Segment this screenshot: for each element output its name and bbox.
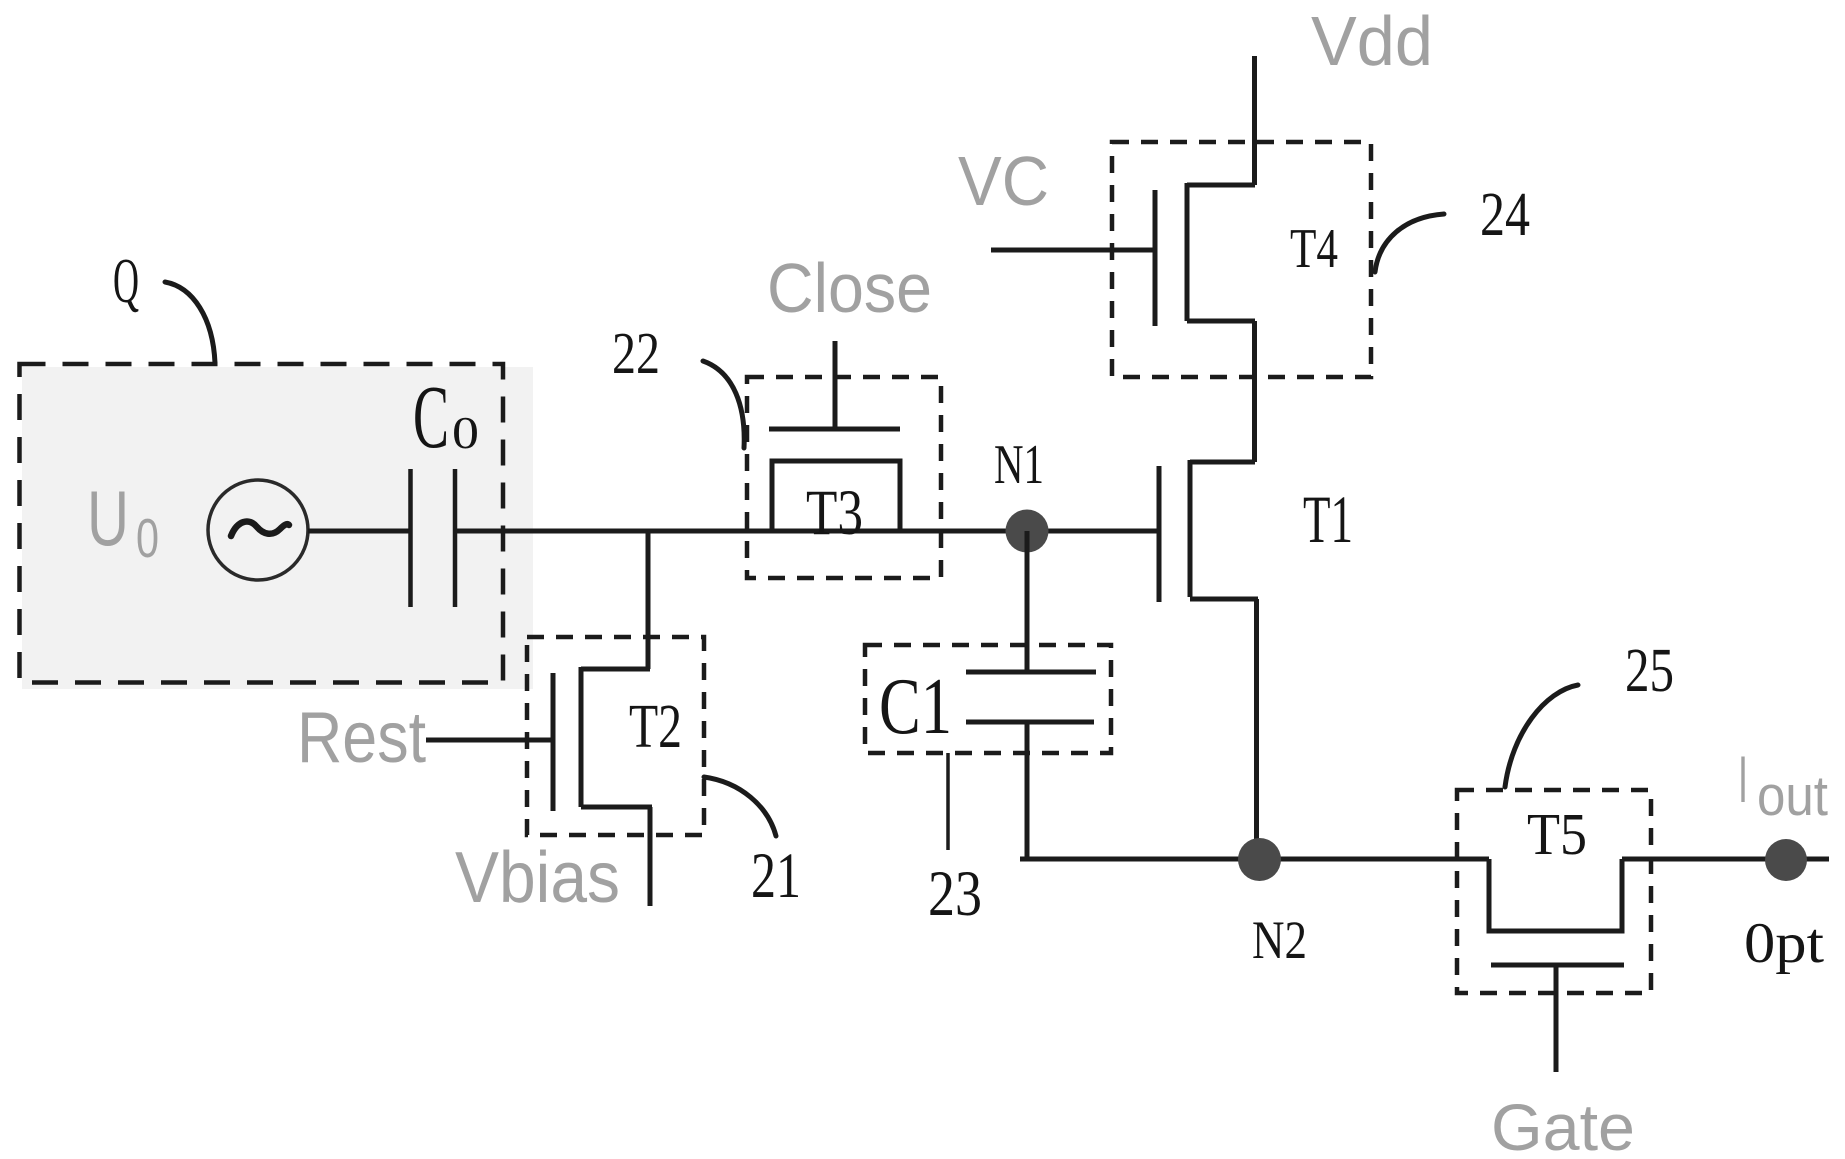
svg-text:U: U	[87, 474, 129, 562]
transistor T1 drain bar	[1190, 460, 1255, 465]
transistor T5 gate wire to Gate	[1554, 967, 1559, 1072]
svg-text:0pt: 0pt	[1744, 912, 1824, 975]
svg-text:N2: N2	[1252, 910, 1307, 970]
transistor T2 channel	[579, 667, 584, 807]
capacitor C1 bottom plate	[966, 720, 1094, 725]
wire source to C0	[308, 529, 410, 534]
svg-text:22: 22	[612, 320, 660, 386]
wire T2 source to Vbias	[648, 807, 653, 906]
transistor T2 drain bar	[581, 667, 650, 672]
transistor T4 channel	[1185, 183, 1190, 321]
svg-text:23: 23	[928, 858, 982, 930]
transistor T4 source bar	[1187, 319, 1255, 324]
node N2	[1238, 838, 1281, 881]
svg-text:T5: T5	[1527, 801, 1587, 867]
transistor T4 drain bar	[1187, 183, 1255, 188]
wire junction down to T2	[646, 531, 651, 669]
svg-text:Vdd: Vdd	[1311, 2, 1433, 80]
voltage source sine symbol	[231, 521, 289, 536]
svg-text:out: out	[1757, 764, 1828, 828]
svg-text:T1: T1	[1303, 481, 1353, 557]
svg-text:0: 0	[136, 507, 159, 569]
transistor T3 gate bar	[769, 427, 900, 432]
23 leader line	[946, 753, 950, 850]
wire T4 source to T1 drain	[1252, 321, 1257, 462]
svg-text:Vbias: Vbias	[455, 838, 620, 918]
dashed box Q	[20, 364, 504, 683]
transistor T3 gate wire from Close	[833, 341, 838, 427]
capacitor C0 left plate	[408, 469, 413, 607]
svg-text:VC: VC	[958, 142, 1049, 220]
wire T5 to output	[1622, 857, 1829, 862]
Q leader curve	[165, 282, 215, 363]
21 leader curve	[704, 777, 776, 836]
transistor T1 gate	[1157, 466, 1162, 602]
svg-text:T4: T4	[1290, 218, 1338, 280]
dashed box 24 around T4	[1112, 142, 1371, 377]
svg-text:24: 24	[1480, 181, 1530, 249]
node Opt output	[1765, 839, 1807, 881]
svg-text:Rest: Rest	[297, 698, 426, 778]
transistor T2 gate	[551, 673, 556, 811]
capacitor C0 right plate	[453, 469, 458, 607]
transistor T3 channel	[772, 461, 900, 531]
dashed box 22 around T3	[747, 377, 941, 578]
wire N1 down to C1	[1025, 531, 1030, 672]
svg-text:T2: T2	[629, 693, 682, 761]
svg-text:Gate: Gate	[1491, 1090, 1635, 1159]
wire Rest to T2 gate	[426, 738, 553, 743]
25 leader curve	[1505, 685, 1578, 787]
svg-text:C1: C1	[879, 661, 952, 751]
dashed box 25 around T5	[1457, 790, 1651, 993]
22 leader curve	[703, 361, 744, 448]
svg-text:0: 0	[452, 408, 479, 458]
dashed box 21 around T2	[527, 637, 704, 835]
voltage source U0 circle	[208, 480, 308, 580]
svg-text:25: 25	[1625, 637, 1674, 705]
node N1	[1006, 510, 1049, 553]
node Q block shadow fill	[22, 367, 533, 689]
svg-text:T3: T3	[806, 477, 863, 549]
svg-text:21: 21	[751, 840, 801, 912]
transistor T5 gate bar	[1491, 963, 1624, 968]
wire C0 to T3 main net	[455, 529, 1159, 534]
wire VC to T4 gate	[991, 248, 1155, 253]
transistor T2 source bar	[581, 805, 652, 810]
svg-text:Q: Q	[113, 245, 139, 316]
wire Vdd to T4	[1252, 56, 1257, 185]
transistor T4 gate	[1153, 190, 1158, 326]
wire C1 to bottom net	[1025, 722, 1030, 859]
bottom net wire C1 to T5	[1020, 857, 1489, 862]
svg-text:N1: N1	[994, 434, 1044, 496]
wire T1 source down to N2	[1254, 599, 1259, 859]
svg-text:Close: Close	[767, 249, 932, 327]
transistor T5 channel	[1489, 859, 1622, 931]
24 leader curve	[1375, 214, 1444, 272]
dashed box 23 around C1	[865, 645, 1111, 753]
capacitor C1 top plate	[966, 670, 1096, 675]
transistor T1 source bar	[1190, 597, 1258, 602]
svg-text:I: I	[1738, 742, 1748, 816]
svg-text:C: C	[413, 368, 449, 467]
transistor T1 channel	[1188, 460, 1193, 597]
